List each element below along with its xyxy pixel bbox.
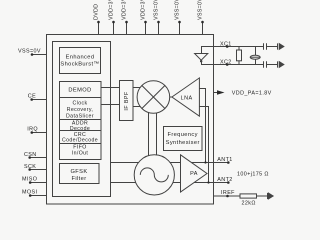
svg-text:VDD=3V: VDD=3V — [141, 0, 147, 20]
capacitor on XC1 rail — [263, 43, 265, 50]
top pin VDD=3V (1) — [109, 0, 115, 34]
wire mixer to oscillator vertical 2 — [156, 100, 158, 174]
wire rail baseband to ANT2 pin — [111, 182, 229, 184]
pin CSN — [24, 152, 47, 159]
svg-text:Frequency: Frequency — [167, 132, 197, 138]
svg-text:ANT1: ANT1 — [217, 157, 232, 163]
wire DataSlicer to IF BPF lower — [101, 104, 120, 106]
pin ANT2 — [227, 181, 230, 184]
wire IF BPF to mixer lower — [133, 106, 153, 108]
pin ANT1 — [227, 161, 230, 164]
DEMOD block stack — [60, 82, 102, 160]
GFSK Filter box — [60, 164, 100, 184]
wire IF BPF to mixer upper — [133, 87, 153, 89]
svg-text:XC1: XC1 — [220, 41, 232, 47]
svg-text:ANT2: ANT2 — [217, 177, 232, 183]
top pin VDD=3V (3) — [141, 0, 147, 34]
top pin VSS=0V (2) — [175, 0, 181, 34]
wire mixer to LNA apex — [170, 96, 172, 98]
svg-text:IF BPF: IF BPF — [124, 91, 130, 110]
svg-text:Code/Decode: Code/Decode — [62, 137, 98, 143]
svg-text:VSS=0V: VSS=0V — [18, 49, 41, 55]
top pin DVDD — [94, 4, 100, 35]
resistor 22k — [240, 194, 257, 198]
svg-text:VDD=3V: VDD=3V — [122, 0, 128, 20]
wire amp output to XC2 — [202, 60, 214, 64]
wire LNA input upper to ANT1 — [199, 89, 205, 163]
top pin VSS=0V (3) — [198, 0, 204, 34]
svg-text:VSS=0V: VSS=0V — [175, 0, 181, 20]
svg-text:VDD=3V: VDD=3V — [109, 0, 115, 20]
svg-text:DVDD: DVDD — [94, 4, 100, 20]
svg-text:Clock: Clock — [73, 101, 88, 107]
svg-text:In/Out: In/Out — [72, 150, 89, 156]
pin VSS=0V left — [18, 49, 47, 56]
resistor (crystal bias) — [238, 47, 240, 51]
pin XC2 wire — [214, 64, 264, 66]
svg-text:Enhanced: Enhanced — [66, 55, 95, 61]
Enhanced ShockBurst box — [60, 48, 101, 74]
oscillator (GFSK modulator) — [134, 155, 174, 195]
svg-text:Recovery,: Recovery, — [67, 107, 94, 113]
svg-text:DataSlicer: DataSlicer — [66, 114, 94, 120]
pin XC1 wire — [214, 46, 264, 48]
svg-text:SCK: SCK — [24, 164, 36, 170]
ground arrow XC1 — [277, 43, 279, 49]
wire LNA input lower to ANT2 — [199, 107, 208, 183]
svg-text:CSN: CSN — [24, 152, 37, 158]
IF BPF box — [120, 81, 134, 121]
svg-text:VSS=0V: VSS=0V — [154, 0, 160, 20]
top pin VSS=0V (1) — [154, 0, 160, 34]
svg-text:100+j175 Ω: 100+j175 Ω — [237, 171, 269, 177]
PA power amplifier — [181, 155, 208, 192]
svg-text:MOSI: MOSI — [22, 190, 37, 196]
VDD_PA output — [214, 92, 218, 94]
pin MISO — [22, 177, 47, 184]
inner baseband box — [53, 42, 111, 197]
svg-text:Synthesiser: Synthesiser — [166, 140, 200, 146]
svg-text:DEMOD: DEMOD — [68, 87, 91, 93]
ground arrow XC2 — [277, 61, 279, 67]
pin IRQ — [27, 127, 46, 134]
frequency synthesiser box — [164, 127, 203, 151]
wire DEMOD to IF BPF upper — [101, 87, 120, 89]
svg-text:GFSK: GFSK — [70, 169, 87, 175]
svg-text:ShockBurst™: ShockBurst™ — [60, 61, 99, 67]
LNA amplifier — [172, 78, 200, 116]
svg-text:MISO: MISO — [22, 177, 37, 183]
svg-text:IREF: IREF — [221, 190, 235, 196]
capacitor on XC2 rail — [263, 61, 265, 68]
svg-text:CE: CE — [28, 94, 36, 100]
outer chip box — [47, 35, 214, 205]
crystal X1 — [255, 47, 257, 56]
svg-text:VSS=0V: VSS=0V — [198, 0, 204, 20]
crystal oscillator amplifier — [195, 54, 208, 61]
svg-text:22kΩ: 22kΩ — [242, 200, 256, 206]
top pin VDD=3V (2) — [122, 0, 128, 34]
ground arrow IREF — [267, 193, 269, 199]
svg-text:IRQ: IRQ — [27, 127, 38, 133]
wire rail baseband to ANT1 pin — [111, 162, 229, 164]
wire mixer to oscillator vertical 1 — [148, 100, 150, 174]
wire XC1 to amp input — [202, 47, 214, 54]
svg-text:LNA: LNA — [181, 95, 193, 101]
pin CE — [28, 94, 47, 101]
junction dot LNA/ANT2 — [207, 181, 209, 183]
svg-text:XC2: XC2 — [220, 59, 232, 65]
svg-text:VDD_PA=1.8V: VDD_PA=1.8V — [232, 91, 272, 97]
pin IREF — [214, 195, 241, 197]
svg-text:PA: PA — [190, 171, 198, 177]
svg-text:Filter: Filter — [71, 176, 86, 182]
mixer — [137, 81, 170, 114]
pin MOSI — [22, 190, 47, 197]
junction dot LNA/ANT1 — [204, 161, 206, 163]
pin SCK — [24, 164, 47, 171]
